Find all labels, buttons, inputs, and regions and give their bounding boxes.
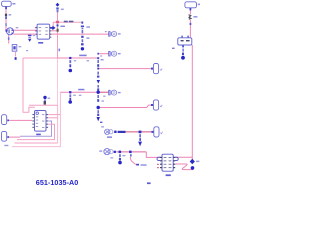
svg-text:651-1035-A0: 651-1035-A0 [36,178,79,187]
